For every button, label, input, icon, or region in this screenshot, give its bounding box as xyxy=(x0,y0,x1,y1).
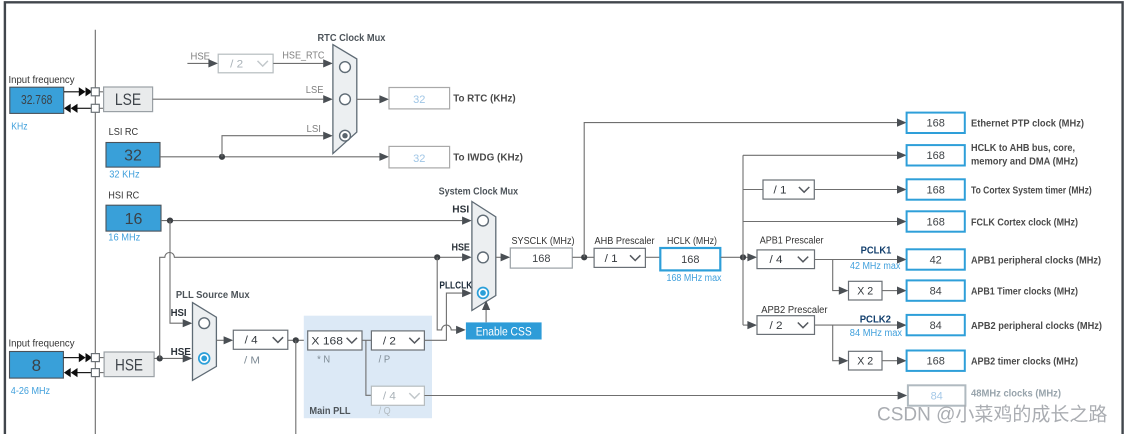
junction after /M xyxy=(293,337,299,343)
AHB prescaler /1 dropdown xyxy=(594,248,645,267)
svg-text:HSE_RTC: HSE_RTC xyxy=(282,51,324,62)
X2 multiplier APB2 xyxy=(849,351,883,370)
svg-text:/ Q: / Q xyxy=(379,406,391,417)
svg-text:APB2 peripheral clocks (MHz): APB2 peripheral clocks (MHz) xyxy=(971,320,1102,332)
svg-text:Main PLL: Main PLL xyxy=(309,405,351,417)
svg-text:32 KHz: 32 KHz xyxy=(109,169,139,180)
svg-text:168: 168 xyxy=(927,118,945,130)
junction HSE xyxy=(157,355,163,361)
SYSCLK value box 168 xyxy=(510,248,572,268)
wire HSE to PLL source mux xyxy=(154,354,192,362)
svg-text:42 MHz max: 42 MHz max xyxy=(850,261,900,272)
svg-text:Enable CSS: Enable CSS xyxy=(476,324,532,338)
svg-text:LSI: LSI xyxy=(307,124,322,135)
svg-text:* N: * N xyxy=(317,355,330,366)
value box APB1 timer 84 xyxy=(907,280,965,300)
divider /2 HSE_RTC (grayed dropdown) xyxy=(218,54,273,73)
svg-text:Input frequency: Input frequency xyxy=(9,75,75,86)
svg-text:/ 2: / 2 xyxy=(383,335,396,347)
svg-text:X 2: X 2 xyxy=(857,286,873,298)
value box APB2 timer 168 xyxy=(907,351,965,371)
Main PLL block xyxy=(304,316,432,419)
svg-text:32: 32 xyxy=(124,147,142,164)
input box HSI 16 xyxy=(106,205,161,231)
svg-text:168: 168 xyxy=(927,356,945,368)
radio HSE (pll) selected xyxy=(199,353,210,364)
svg-text:168: 168 xyxy=(532,253,550,265)
divider /Q dropdown grayed xyxy=(371,386,424,405)
svg-text:/ 4: / 4 xyxy=(383,391,396,403)
divider /P dropdown xyxy=(371,331,424,350)
wire branch to cortex divider xyxy=(743,189,763,191)
svg-text:8: 8 xyxy=(32,356,41,375)
svg-text:PLLCLK: PLLCLK xyxy=(439,280,473,291)
wire HCLK to APB1 prescaler xyxy=(721,253,757,261)
X2 multiplier APB1 xyxy=(849,281,883,300)
svg-text:84: 84 xyxy=(930,286,942,298)
junction LSI xyxy=(219,154,225,160)
svg-text:Ethernet PTP clock (MHz): Ethernet PTP clock (MHz) xyxy=(971,118,1084,130)
SEC_RTC xyxy=(154,186,541,434)
svg-text:168: 168 xyxy=(927,216,945,228)
svg-text:LSE: LSE xyxy=(306,85,324,96)
value box Cortex timer 168 xyxy=(907,179,965,199)
svg-text:48MHz clocks (MHz): 48MHz clocks (MHz) xyxy=(971,388,1061,400)
APB1 prescaler /4 dropdown xyxy=(757,250,815,269)
wire HCLK to AHB bus branch xyxy=(743,151,907,159)
wire HSE_RTC to mux xyxy=(273,59,333,67)
svg-text:16 MHz: 16 MHz xyxy=(108,232,140,243)
svg-text:32.768: 32.768 xyxy=(21,93,52,107)
label HCLK to AHB bus core memory DMA xyxy=(971,142,1078,168)
svg-text:4-26 MHz: 4-26 MHz xyxy=(11,386,50,397)
To RTC value box 32 xyxy=(389,88,450,109)
svg-text:168: 168 xyxy=(681,254,699,266)
svg-text:42: 42 xyxy=(930,254,942,266)
To IWDG value box 32 xyxy=(389,146,450,168)
wire HSE branch up and right to system mux with hop xyxy=(160,253,472,359)
radio HSE (sys) xyxy=(478,252,489,263)
value box 48MHz 84 grayed xyxy=(908,385,966,405)
svg-text:84: 84 xyxy=(931,390,943,402)
wire X168 branch down to /Q xyxy=(366,340,372,395)
svg-text:HSE: HSE xyxy=(115,356,143,374)
svg-text:/ 4: / 4 xyxy=(770,254,783,266)
RTC clock mux shape xyxy=(333,45,357,154)
wire PLLCLK from /P up to system mux xyxy=(424,289,471,340)
value box APB2 peripheral 84 xyxy=(907,315,965,335)
svg-text:168: 168 xyxy=(927,150,945,162)
wire HSI to system mux xyxy=(161,217,472,225)
svg-text:LSI RC: LSI RC xyxy=(109,127,139,138)
svg-text:PLL Source Mux: PLL Source Mux xyxy=(176,289,250,301)
svg-text:X 2: X 2 xyxy=(857,356,873,368)
cortex /1 dropdown xyxy=(763,180,814,199)
svg-text:APB1 Timer clocks (MHz): APB1 Timer clocks (MHz) xyxy=(971,285,1078,297)
svg-text:APB1 Prescaler: APB1 Prescaler xyxy=(760,236,824,247)
svg-text:To RTC (KHz): To RTC (KHz) xyxy=(453,93,516,105)
wire LSI branch to rtc mux xyxy=(222,132,333,157)
svg-text:/ 1: / 1 xyxy=(774,185,787,197)
svg-text:HSE: HSE xyxy=(191,52,211,63)
svg-text:HSI: HSI xyxy=(171,308,187,319)
svg-text:16: 16 xyxy=(125,211,143,228)
svg-text:168 MHz max: 168 MHz max xyxy=(667,273,722,284)
svg-text:RTC Clock Mux: RTC Clock Mux xyxy=(318,32,386,44)
wire /M to X168 xyxy=(288,339,308,341)
svg-text:LSE: LSE xyxy=(115,91,141,109)
wire 8 to HSE right arrows xyxy=(64,353,105,362)
wire riser HCLK tree xyxy=(742,155,744,325)
svg-text:memory and DMA (MHz): memory and DMA (MHz) xyxy=(971,155,1078,167)
separator line xyxy=(94,30,96,434)
wire LSE to 32.768 left arrows xyxy=(64,104,104,113)
wire junction down to bottom xyxy=(295,340,297,434)
system clock mux shape xyxy=(472,202,496,311)
wire HSE branch down to Enable CSS with hop xyxy=(437,257,466,334)
value box APB1 peripheral 42 xyxy=(907,249,965,269)
wire X2 to APB2 timer box xyxy=(882,357,907,365)
wire PCLK2 xyxy=(815,321,907,329)
input box LSI 32 xyxy=(106,143,160,168)
divider /M dropdown xyxy=(233,330,287,349)
svg-text:X 168: X 168 xyxy=(311,335,343,347)
svg-text:FCLK Cortex clock (MHz): FCLK Cortex clock (MHz) xyxy=(971,216,1078,228)
wire SYSCLK to AHB prescaler xyxy=(572,256,594,258)
SEC_LEFT xyxy=(153,32,523,168)
svg-text:System Clock Mux: System Clock Mux xyxy=(439,186,519,198)
input box 8 xyxy=(10,352,64,379)
svg-text:Input frequency: Input frequency xyxy=(9,338,75,349)
wire AHB to HCLK xyxy=(646,256,660,258)
svg-text:/ 1: / 1 xyxy=(605,253,618,265)
wire X2 to APB1 timer box xyxy=(882,287,907,295)
svg-text:HSE: HSE xyxy=(452,243,471,254)
svg-text:/ 2: / 2 xyxy=(770,320,783,332)
svg-text:/ P: / P xyxy=(379,355,391,366)
wire Enable CSS up arrow to mux xyxy=(482,300,490,322)
wire ethernet PTP branch xyxy=(584,119,906,258)
wire /Q to 48MHz box xyxy=(424,391,907,399)
wire LSE to rtc mux xyxy=(153,95,333,103)
wire system mux to SYSCLK box xyxy=(496,253,510,261)
wire APB2 branch to X2 xyxy=(833,325,849,365)
PLL source mux shape xyxy=(193,303,217,381)
junction HCLK tree xyxy=(740,254,746,260)
wire cortex divider to box xyxy=(814,185,906,193)
svg-text:APB1 peripheral clocks (MHz): APB1 peripheral clocks (MHz) xyxy=(971,254,1101,266)
radio HSE_RTC xyxy=(340,62,351,73)
svg-text:HCLK to AHB bus, core,: HCLK to AHB bus, core, xyxy=(971,142,1075,154)
svg-text:HSE: HSE xyxy=(171,347,192,358)
svg-text:PCLK1: PCLK1 xyxy=(861,245,892,256)
svg-text:168: 168 xyxy=(927,184,945,196)
wire PCLK1 xyxy=(815,255,907,263)
SEC_MID xyxy=(424,113,1107,426)
value box Ethernet 168 xyxy=(907,113,965,133)
HSE source box xyxy=(104,352,154,377)
wire APB1 branch to X2 xyxy=(833,260,849,295)
radio LSE xyxy=(340,94,351,105)
svg-text:HSI RC: HSI RC xyxy=(108,191,139,202)
svg-text:APB2 timer clocks (MHz): APB2 timer clocks (MHz) xyxy=(971,356,1078,368)
wire HSE stub to rtc divider xyxy=(187,59,218,67)
input box 32.768 xyxy=(10,87,64,113)
svg-text:To Cortex System timer (MHz): To Cortex System timer (MHz) xyxy=(971,184,1092,196)
junction ethernet riser xyxy=(581,254,587,260)
Enable CSS button xyxy=(466,322,542,339)
radio LSI selected xyxy=(340,130,351,141)
radio PLLCLK selected xyxy=(478,288,489,299)
svg-text:/ 2: / 2 xyxy=(230,58,243,70)
value box HCLK AHB 168 xyxy=(907,145,965,165)
wire branch to APB2 prescaler xyxy=(743,321,757,329)
svg-text:/ M: / M xyxy=(244,355,260,366)
wire 32.768 to LSE right arrows xyxy=(64,87,104,96)
APB2 prescaler /2 dropdown xyxy=(757,316,815,335)
svg-text:PCLK2: PCLK2 xyxy=(860,315,892,326)
HCLK value box 168 highlighted xyxy=(660,248,720,270)
junction HSE at system mux xyxy=(434,254,440,260)
junction HSI xyxy=(167,218,173,224)
radio HSI (pll) xyxy=(199,318,210,329)
multiplier N dropdown X 168 xyxy=(308,331,362,350)
wire X168 to /P xyxy=(362,339,371,341)
svg-text:32: 32 xyxy=(413,94,425,106)
wire pll mux to /M divider xyxy=(216,336,233,344)
wire HSE to 8 left arrows xyxy=(64,368,104,377)
svg-text:84 MHz max: 84 MHz max xyxy=(850,328,902,339)
svg-text:AHB Prescaler: AHB Prescaler xyxy=(595,236,656,247)
svg-text:KHz: KHz xyxy=(11,122,27,133)
svg-text:SYSCLK (MHz): SYSCLK (MHz) xyxy=(512,236,575,247)
LSE source box xyxy=(104,87,153,112)
wire HSI branch down to PLL source mux xyxy=(170,221,192,328)
svg-text:CSDN @小菜鸡的成长之路: CSDN @小菜鸡的成长之路 xyxy=(877,404,1107,426)
svg-text:HCLK (MHz): HCLK (MHz) xyxy=(667,236,717,247)
svg-text:32: 32 xyxy=(413,153,425,165)
svg-text:/ 4: / 4 xyxy=(245,335,258,347)
wire FCLK branch xyxy=(743,217,907,225)
svg-text:To IWDG (KHz): To IWDG (KHz) xyxy=(453,152,523,164)
svg-text:84: 84 xyxy=(930,320,942,332)
value box FCLK 168 xyxy=(907,211,965,231)
radio HSI (sys) xyxy=(478,215,489,226)
svg-text:HSI: HSI xyxy=(452,204,469,215)
wire rtc mux to RTC box xyxy=(357,95,389,103)
svg-text:APB2 Prescaler: APB2 Prescaler xyxy=(761,305,828,316)
wire LSI to IWDG row xyxy=(160,153,389,161)
